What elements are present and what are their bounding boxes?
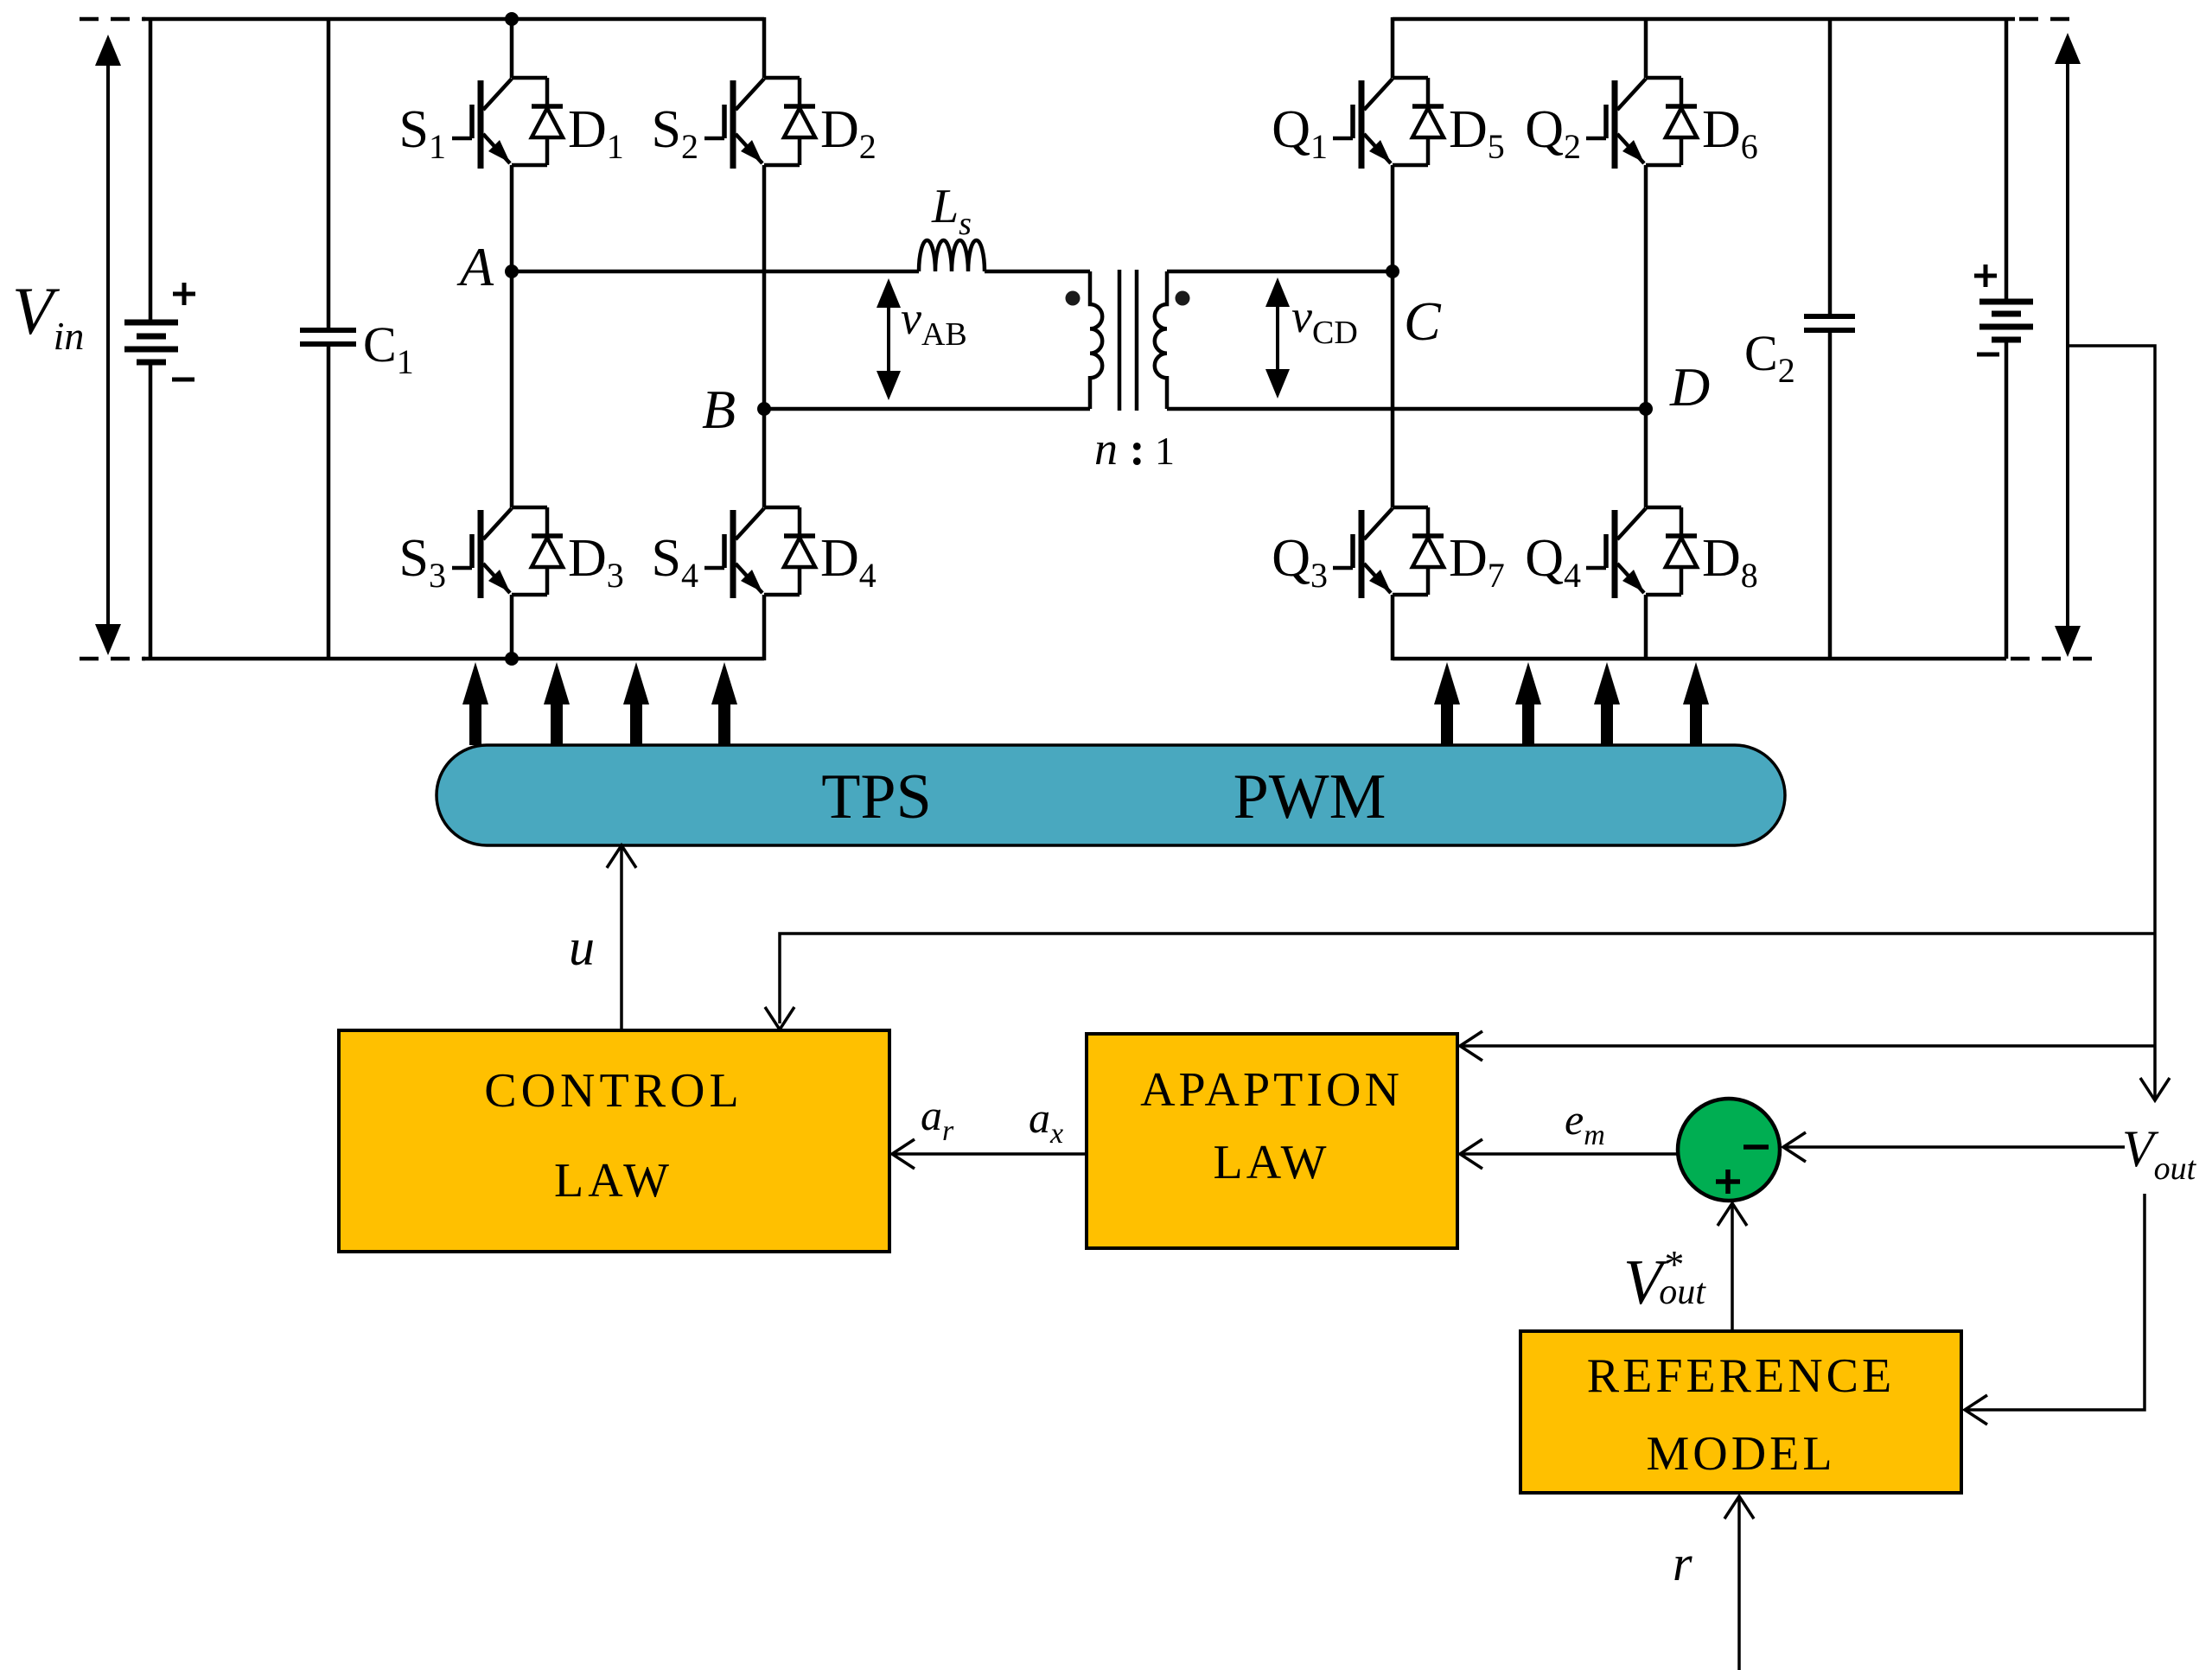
arrow head down at Vout label — [2140, 1078, 2170, 1100]
transistor S3 — [452, 507, 563, 598]
svg-text:V*out: V*out — [1623, 1242, 1706, 1318]
wire: u control signal — [620, 845, 623, 1030]
transistor Q3 — [1333, 507, 1444, 598]
gate drive arrow Q4 — [1683, 662, 1709, 745]
node C — [1386, 265, 1399, 278]
wire: Vout* reference to summing junction — [1731, 1206, 1734, 1331]
svg-text:Q1: Q1 — [1272, 100, 1328, 166]
summing junction minus sign — [1743, 1144, 1769, 1150]
svg-text:vCD: vCD — [1291, 290, 1358, 351]
battery Vout (right) — [1974, 19, 2033, 659]
svg-text:Vout: Vout — [2122, 1120, 2197, 1187]
wire: top rail right dashed end — [2019, 17, 2078, 22]
wire: Vout input to adaptation law — [1460, 1044, 2155, 1048]
wire: Vout sense tap — [2069, 346, 2155, 1100]
gate drive arrow S1 — [462, 662, 488, 745]
node D — [1639, 402, 1653, 416]
svg-text:REFERENCE: REFERENCE — [1587, 1349, 1895, 1403]
capacitor C1 — [300, 19, 356, 659]
svg-text:D7: D7 — [1449, 529, 1505, 595]
svg-text:D: D — [1669, 356, 1710, 417]
svg-text:em: em — [1565, 1095, 1605, 1151]
svg-text:MODEL: MODEL — [1646, 1427, 1835, 1481]
svg-text:PWM: PWM — [1233, 762, 1386, 832]
svg-text:D3: D3 — [568, 529, 624, 595]
wire: Vout input to reference model — [1965, 1194, 2145, 1410]
wire: S2/S4 leg — [762, 17, 767, 660]
transistor Q4 — [1586, 507, 1697, 598]
gate drive arrow Q2 — [1515, 662, 1541, 745]
transistor S4 — [704, 507, 815, 598]
wire: node A to inductor — [512, 270, 919, 274]
wire: em error signal — [1460, 1152, 1678, 1156]
svg-text:S3: S3 — [399, 529, 446, 595]
svg-text:D4: D4 — [820, 529, 877, 595]
wire: r input to reference model — [1737, 1496, 1741, 1670]
gate drive arrow S2 — [544, 662, 570, 745]
transistor Q1 — [1333, 78, 1444, 169]
svg-text:u: u — [569, 919, 595, 976]
svg-text:S2: S2 — [652, 100, 698, 166]
battery Vin — [124, 19, 195, 659]
transistor S2 — [704, 78, 815, 169]
transformer secondary polarity dot — [1176, 291, 1190, 306]
svg-text:n : 1: n : 1 — [1094, 423, 1175, 475]
transformer T1 secondary winding — [1155, 271, 1167, 409]
svg-text:Vin: Vin — [12, 273, 84, 358]
gate drive arrow Q3 — [1594, 662, 1620, 745]
wire: inductor to transformer primary — [985, 270, 1090, 274]
svg-text:ar: ar — [921, 1091, 954, 1147]
svg-text:vAB: vAB — [901, 292, 967, 353]
node: S3 bottom junction — [505, 652, 519, 666]
svg-text:C: C — [1404, 290, 1442, 352]
wire: node B to transformer primary bottom — [764, 407, 1090, 411]
wire: Q1/Q3 leg — [1391, 17, 1395, 660]
transformer primary polarity dot — [1066, 291, 1081, 306]
transformer T1 primary winding — [1090, 271, 1102, 409]
node: S1 top junction — [505, 12, 519, 26]
transformer T1 core — [1118, 270, 1122, 411]
svg-text:D1: D1 — [568, 100, 624, 166]
svg-text:S1: S1 — [399, 100, 446, 166]
wire: Q2/Q4 leg — [1644, 17, 1648, 660]
wire: transformer secondary bottom to node D — [1167, 407, 1646, 411]
Vin measurement double arrow — [95, 35, 121, 655]
wire: bottom rail right (output side) — [1393, 657, 2006, 661]
wire: bottom rail left dashed end — [80, 657, 145, 661]
svg-text:ax: ax — [1029, 1093, 1063, 1150]
wire: bottom rail right dashed end — [2011, 657, 2104, 661]
block: CONTROL LAW — [339, 1030, 889, 1252]
svg-text:D6: D6 — [1702, 100, 1758, 166]
svg-text:Ls: Ls — [931, 180, 972, 242]
capacitor C2 — [1804, 19, 1855, 659]
wire: S1/S3 leg — [510, 19, 514, 659]
wire: transformer secondary top to node C — [1167, 270, 1393, 274]
svg-text:Q2: Q2 — [1525, 100, 1581, 166]
svg-text:S4: S4 — [652, 529, 698, 595]
gate drive arrow S4 — [711, 662, 737, 745]
svg-text:Q4: Q4 — [1525, 529, 1581, 595]
svg-text:LAW: LAW — [1213, 1136, 1329, 1189]
wire: Vout feedback to control law — [780, 934, 2155, 1023]
svg-text:TPS: TPS — [821, 762, 932, 832]
wire: ar ax adaptation signal — [892, 1152, 1087, 1156]
gate drive arrow S3 — [623, 662, 649, 745]
svg-text:B: B — [702, 379, 736, 440]
summing junction — [1678, 1099, 1780, 1201]
transistor Q2 — [1586, 78, 1697, 169]
inductor Ls — [919, 240, 985, 271]
svg-text:A: A — [456, 236, 494, 297]
summing junction plus sign — [1716, 1170, 1740, 1194]
gate drive arrow Q1 — [1434, 662, 1460, 745]
svg-text:CONTROL: CONTROL — [484, 1064, 743, 1118]
TPS PWM modulator bar — [437, 745, 1785, 845]
wire: top rail left dashed end — [80, 17, 145, 22]
svg-text:D2: D2 — [820, 100, 877, 166]
transistor S1 — [452, 78, 563, 169]
Vout measurement double arrow (right) — [2055, 33, 2081, 657]
voltage arrow vAB — [877, 278, 901, 400]
wire: bottom rail left (input side) — [143, 657, 764, 661]
svg-text:C2: C2 — [1744, 325, 1795, 390]
svg-text:Q3: Q3 — [1272, 529, 1328, 595]
arrow head u into modulator — [607, 845, 636, 868]
wire: top rail left (input side) — [143, 17, 764, 22]
block: REFERENCE MODEL — [1520, 1331, 1961, 1493]
voltage arrow vCD — [1265, 277, 1290, 398]
svg-text:APAPTION: APAPTION — [1140, 1063, 1403, 1117]
svg-text:D5: D5 — [1449, 100, 1505, 166]
wire: top rail right (output side) — [1393, 17, 2015, 22]
svg-text:r: r — [1673, 1535, 1692, 1591]
block: APAPTION LAW — [1087, 1034, 1457, 1248]
svg-text:C1: C1 — [363, 316, 414, 381]
svg-text:LAW: LAW — [554, 1154, 673, 1208]
svg-text:D8: D8 — [1702, 529, 1758, 595]
node A — [505, 265, 519, 278]
node B — [757, 402, 771, 416]
wire: Vout to summing junction — [1783, 1145, 2125, 1149]
